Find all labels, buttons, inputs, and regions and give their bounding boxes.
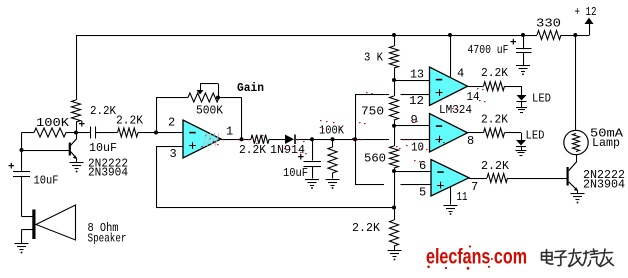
wire pin 9 bbox=[394, 125, 430, 126]
svg-text:2N3904: 2N3904 bbox=[88, 166, 128, 180]
ground R5 bbox=[326, 179, 340, 180]
resistor 3K bbox=[390, 46, 399, 68]
ground D3 bbox=[516, 150, 527, 151]
resistor 2.2K R3 (series input) bbox=[118, 128, 139, 137]
svg-text:750: 750 bbox=[361, 105, 384, 119]
wire left rail down bbox=[76, 35, 77, 100]
LED D3 bbox=[521, 133, 522, 140]
wire to pin 5 bbox=[355, 184, 384, 185]
node signal rail junction bbox=[353, 137, 357, 141]
svg-text:11: 11 bbox=[457, 190, 468, 204]
svg-text:+ 12: + 12 bbox=[575, 5, 597, 19]
node N2 junction (Q1 base) bbox=[20, 148, 24, 152]
svg-text:5: 5 bbox=[419, 186, 426, 200]
ground Q2 emitter bbox=[571, 193, 585, 194]
wire feedback bbox=[156, 98, 157, 133]
wire U1b output bbox=[468, 86, 484, 87]
potentiometer 500K Gain bbox=[188, 93, 219, 102]
svg-text:LM324: LM324 bbox=[439, 103, 472, 117]
svg-text:2.2K: 2.2K bbox=[239, 143, 267, 157]
svg-text:2.2K: 2.2K bbox=[90, 104, 117, 118]
wire to pin 10 bbox=[401, 139, 430, 140]
capacitor 4700uF C4 bbox=[521, 33, 525, 37]
LED D2 bbox=[521, 86, 522, 95]
svg-text:Speaker: Speaker bbox=[88, 232, 127, 246]
svg-text:2: 2 bbox=[168, 116, 175, 130]
wire signal rail bbox=[355, 94, 356, 185]
wire pin3 bbox=[156, 146, 183, 147]
wire pin 4 bbox=[448, 33, 452, 37]
wire left input stub bbox=[21, 133, 22, 172]
svg-text:Lamp: Lamp bbox=[592, 136, 620, 150]
resistor 100K R5 bbox=[332, 139, 333, 147]
resistor 330 bbox=[537, 31, 561, 40]
transistor Q2 2N2222/2N3904 bbox=[576, 155, 577, 162]
power +12 bbox=[589, 23, 590, 35]
resistor 2.2K R9 bbox=[390, 220, 399, 246]
op-amp U1c LM324 comparator 2 bbox=[430, 114, 468, 153]
svg-text:+: + bbox=[510, 38, 517, 50]
svg-text:8: 8 bbox=[467, 134, 474, 148]
svg-text:Gain: Gain bbox=[237, 81, 264, 95]
ground Q1 emitter bbox=[70, 162, 84, 163]
ground C4 bbox=[516, 65, 530, 66]
resistor 2.2K R8 bbox=[487, 174, 508, 183]
svg-text:3: 3 bbox=[170, 147, 177, 161]
svg-text:560: 560 bbox=[364, 152, 386, 166]
resistor 2.2K R2 (bias) bbox=[72, 100, 81, 122]
svg-text:10uF: 10uF bbox=[89, 141, 117, 155]
svg-text:+: + bbox=[79, 120, 86, 132]
resistor 560 bbox=[390, 146, 399, 168]
decorative watermark dots (not labelled elements) bbox=[201, 88, 486, 162]
resistor 2.2K R7 bbox=[484, 128, 505, 137]
svg-text:10: 10 bbox=[411, 141, 424, 155]
svg-text:+: + bbox=[298, 153, 305, 165]
ground C3 bbox=[305, 179, 319, 180]
svg-text:4: 4 bbox=[457, 67, 464, 81]
wire detector node bbox=[296, 139, 389, 140]
svg-text:LED: LED bbox=[526, 129, 545, 143]
diode 1N914 D1 bbox=[285, 135, 294, 145]
wire pin3 to divider bbox=[156, 207, 394, 208]
svg-text:100K: 100K bbox=[36, 116, 70, 130]
svg-text:4700 uF: 4700 uF bbox=[468, 43, 509, 57]
svg-text:330: 330 bbox=[536, 17, 561, 31]
node ladder A bbox=[392, 78, 396, 82]
wire U1a output bbox=[221, 139, 251, 140]
speaker 8 Ohm bbox=[22, 216, 33, 217]
wire pin 6 bbox=[394, 171, 431, 172]
wire U1c output bbox=[468, 132, 484, 133]
svg-text:elecfans·com: elecfans·com bbox=[426, 246, 527, 269]
op-amp U1b LM324 comparator 1 bbox=[430, 67, 468, 106]
wire pin 11 ground bbox=[450, 187, 451, 205]
wire pin 13 bbox=[394, 80, 430, 81]
ground speaker bbox=[15, 243, 29, 244]
node ladder C bbox=[392, 169, 396, 173]
resistor 100K R1 bbox=[22, 132, 35, 133]
svg-text:10uF: 10uF bbox=[34, 174, 59, 188]
wire to pin 12 bbox=[355, 94, 389, 95]
op-amp U1d LM324 comparator 3 bbox=[431, 160, 469, 197]
svg-text:3 K: 3 K bbox=[364, 51, 384, 65]
svg-text:2.2K: 2.2K bbox=[481, 159, 510, 173]
wire Q1 base bbox=[22, 150, 70, 151]
node detector junction 1 bbox=[310, 137, 314, 141]
wire lamp feed bbox=[575, 35, 576, 130]
svg-text:2.2K: 2.2K bbox=[352, 221, 381, 235]
logo text dian-zi-fa-shao-you bbox=[542, 249, 614, 267]
node N1 junction bbox=[74, 131, 78, 135]
node ladder B bbox=[392, 124, 396, 128]
resistor 2.2K R4 bbox=[251, 135, 269, 144]
wire feedback down to output bbox=[241, 98, 242, 140]
resistor 750 bbox=[390, 96, 399, 120]
svg-text:12: 12 bbox=[409, 94, 424, 108]
wire +12 top rail bbox=[76, 35, 537, 36]
transistor Q1 2N2222/2N3904 bbox=[69, 143, 71, 156]
resistor 2.2K R6 bbox=[484, 82, 505, 91]
node detector junction 2 bbox=[331, 137, 335, 141]
svg-text:1: 1 bbox=[226, 125, 233, 139]
svg-text:2.2K: 2.2K bbox=[481, 66, 509, 80]
watermark hatch at U1a tip bbox=[203, 133, 219, 146]
node output junction bbox=[240, 137, 244, 141]
op-amp U1a LM324 (amplifier) bbox=[183, 120, 221, 158]
wire ladder top bbox=[392, 33, 396, 37]
svg-text:100K: 100K bbox=[319, 124, 345, 138]
svg-text:2.2K: 2.2K bbox=[116, 114, 144, 128]
lamp 50mA bbox=[564, 130, 588, 154]
wire U1d output bbox=[469, 178, 487, 179]
ground D2 bbox=[516, 107, 527, 108]
capacitor 10uF C3 bbox=[312, 139, 313, 160]
svg-text:LED: LED bbox=[532, 92, 551, 106]
svg-text:10uF: 10uF bbox=[283, 166, 308, 180]
wire to Q2 base bbox=[508, 178, 567, 179]
svg-text:7: 7 bbox=[471, 180, 478, 194]
ground pin 11 bbox=[444, 205, 458, 206]
node pin2 junction bbox=[154, 131, 158, 135]
node lamp junction bbox=[573, 33, 577, 37]
svg-text:2N3904: 2N3904 bbox=[583, 178, 625, 192]
svg-text:500K: 500K bbox=[196, 104, 224, 118]
svg-text:2.2K: 2.2K bbox=[481, 113, 509, 127]
node ladder D (bias) bbox=[392, 206, 396, 210]
svg-text:14: 14 bbox=[467, 90, 480, 104]
svg-text:13: 13 bbox=[410, 68, 424, 82]
ground R9 bbox=[388, 250, 402, 251]
